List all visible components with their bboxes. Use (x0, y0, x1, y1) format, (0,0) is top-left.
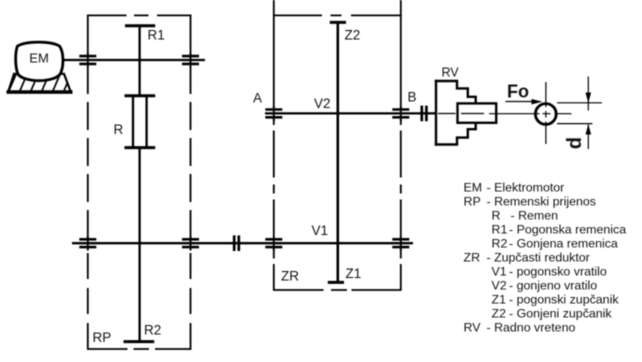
svg-text:B: B (408, 90, 417, 105)
svg-text:Z1- pogonski zupčanik: Z1- pogonski zupčanik (492, 293, 620, 307)
svg-text:ZR: ZR (281, 269, 299, 284)
svg-text:R2- Gonjena remenica: R2- Gonjena remenica (492, 237, 618, 251)
svg-text:Z2: Z2 (345, 28, 361, 43)
svg-text:R2: R2 (144, 322, 161, 337)
svg-text:Z1: Z1 (346, 266, 362, 281)
svg-text:EM- Elektromotor: EM- Elektromotor (464, 181, 565, 195)
svg-text:R1- Pogonska remenica: R1- Pogonska remenica (492, 223, 627, 237)
svg-text:d: d (564, 137, 586, 149)
svg-text:V2: V2 (314, 96, 331, 111)
svg-text:EM: EM (29, 51, 49, 66)
svg-text:A: A (253, 90, 262, 105)
svg-text:RP: RP (93, 330, 112, 345)
svg-text:R: R (114, 122, 124, 137)
svg-text:RV- Radno vreteno: RV- Radno vreteno (464, 321, 576, 335)
svg-text:R1: R1 (148, 28, 165, 43)
svg-text:Z2- Gonjeni zupčanik: Z2- Gonjeni zupčanik (492, 307, 613, 321)
svg-text:RV: RV (442, 66, 460, 80)
svg-text:V1- pogonsko vratilo: V1- pogonsko vratilo (492, 265, 607, 279)
svg-text:Fo: Fo (507, 82, 529, 102)
svg-text:V1: V1 (312, 223, 329, 238)
